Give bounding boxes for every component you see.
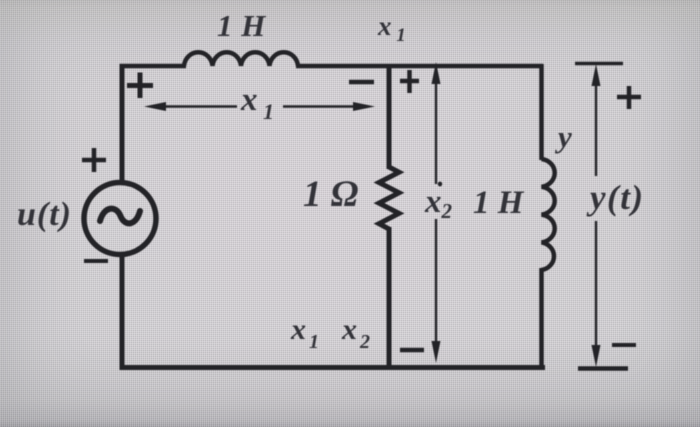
plus sign y (top right) [617, 86, 641, 109]
wire: middle branch upper (node x1 down to resistor) [387, 64, 392, 169]
svg-text:1 H: 1 H [217, 8, 266, 43]
inductor L1 1 H (top) [184, 52, 298, 66]
y(t) bottom bar [578, 366, 628, 371]
wire: bottom horizontal [120, 365, 546, 370]
svg-text:x2: x2 [424, 184, 453, 223]
svg-text:x 1: x 1 [377, 11, 406, 46]
minus sign x2 (bottom) [400, 348, 424, 353]
wire: middle branch lower (resistor to bottom wire) [387, 227, 392, 369]
dot of x2dot [438, 182, 442, 187]
x2 voltage arrow (double headed, vertical) [432, 62, 441, 363]
svg-text:x2: x2 [341, 313, 370, 353]
wire: top horizontal, inductor to right corner [296, 64, 543, 69]
source U1 circle u(t) [84, 183, 156, 255]
svg-text:x1: x1 [290, 313, 319, 353]
svg-text:1 H: 1 H [473, 185, 525, 221]
plus sign x2 (right of middle branch, top) [400, 70, 419, 93]
plus sign at source top [82, 148, 106, 172]
y(t) voltage arrow (double headed, vertical) [592, 64, 601, 367]
wire: right branch upper (top wire to inductor L2) [539, 64, 544, 160]
wire: top horizontal, corner to inductor [120, 64, 187, 69]
source U1 sine tilde [100, 209, 140, 224]
wire: left vertical (source bottom to bottom corner) [120, 254, 125, 369]
wire: right branch lower (inductor L2 to bottom wire) [539, 268, 544, 369]
svg-text:1 Ω: 1 Ω [303, 174, 358, 215]
svg-text:y: y [554, 119, 572, 154]
minus sign at source bottom [84, 259, 108, 263]
svg-text:u(t): u(t) [17, 196, 72, 233]
minus sign y (bottom right) [612, 343, 636, 347]
resistor R1 1 ohm zigzag [379, 167, 399, 229]
inductor L2 1 H (right, bumps right) [542, 159, 555, 270]
plus sign x1 (top left) [127, 73, 153, 99]
svg-text:y(t): y(t) [586, 178, 645, 217]
svg-text:x 1: x 1 [240, 82, 274, 124]
x1 voltage arrow (double headed, horizontal) [144, 102, 375, 111]
y(t) top bar [575, 62, 623, 66]
wire: left vertical (top corner to source top) [120, 64, 125, 184]
minus sign x1 (right, left of middle branch) [349, 80, 374, 85]
